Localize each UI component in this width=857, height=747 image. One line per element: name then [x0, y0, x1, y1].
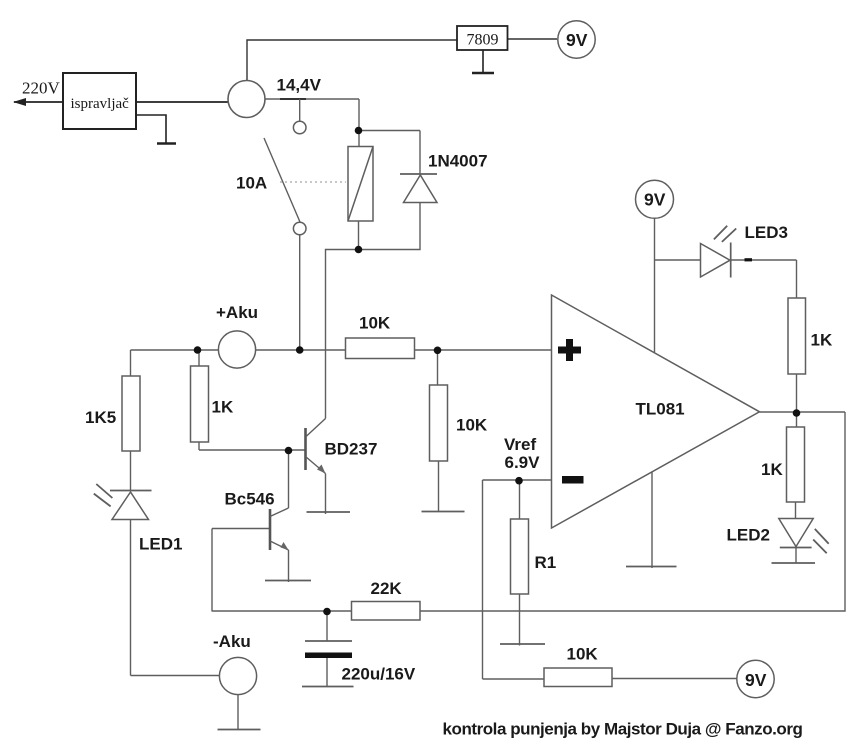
svg-text:1K: 1K [811, 331, 833, 350]
svg-text:-Aku: -Aku [213, 632, 251, 651]
svg-text:9V: 9V [745, 670, 767, 690]
svg-text:1K: 1K [212, 398, 234, 417]
svg-text:LED3: LED3 [745, 223, 788, 242]
svg-text:Bc546: Bc546 [225, 490, 275, 509]
svg-text:1K5: 1K5 [85, 408, 116, 427]
svg-text:220V: 220V [22, 79, 61, 98]
svg-text:TL081: TL081 [636, 400, 685, 419]
svg-text:220u/16V: 220u/16V [342, 665, 416, 684]
svg-text:22K: 22K [371, 579, 403, 598]
svg-text:6.9V: 6.9V [505, 453, 541, 472]
svg-text:LED1: LED1 [139, 535, 182, 554]
svg-text:9V: 9V [644, 190, 666, 210]
svg-text:10A: 10A [236, 174, 267, 193]
svg-text:10K: 10K [456, 416, 488, 435]
svg-text:LED2: LED2 [727, 526, 770, 545]
svg-text:9V: 9V [566, 30, 588, 50]
svg-text:+Aku: +Aku [216, 303, 258, 322]
svg-text:Vref: Vref [504, 435, 536, 454]
svg-text:1K: 1K [761, 460, 783, 479]
svg-text:1N4007: 1N4007 [428, 152, 488, 171]
svg-text:ispravljač: ispravljač [71, 96, 130, 112]
svg-text:14,4V: 14,4V [277, 76, 322, 95]
svg-text:kontrola punjenja by Majstor D: kontrola punjenja by Majstor Duja @ Fanz… [443, 720, 803, 739]
svg-text:10K: 10K [567, 645, 599, 664]
svg-text:7809: 7809 [467, 32, 499, 49]
svg-text:10K: 10K [359, 314, 391, 333]
svg-text:R1: R1 [535, 553, 557, 572]
svg-text:BD237: BD237 [325, 440, 378, 459]
